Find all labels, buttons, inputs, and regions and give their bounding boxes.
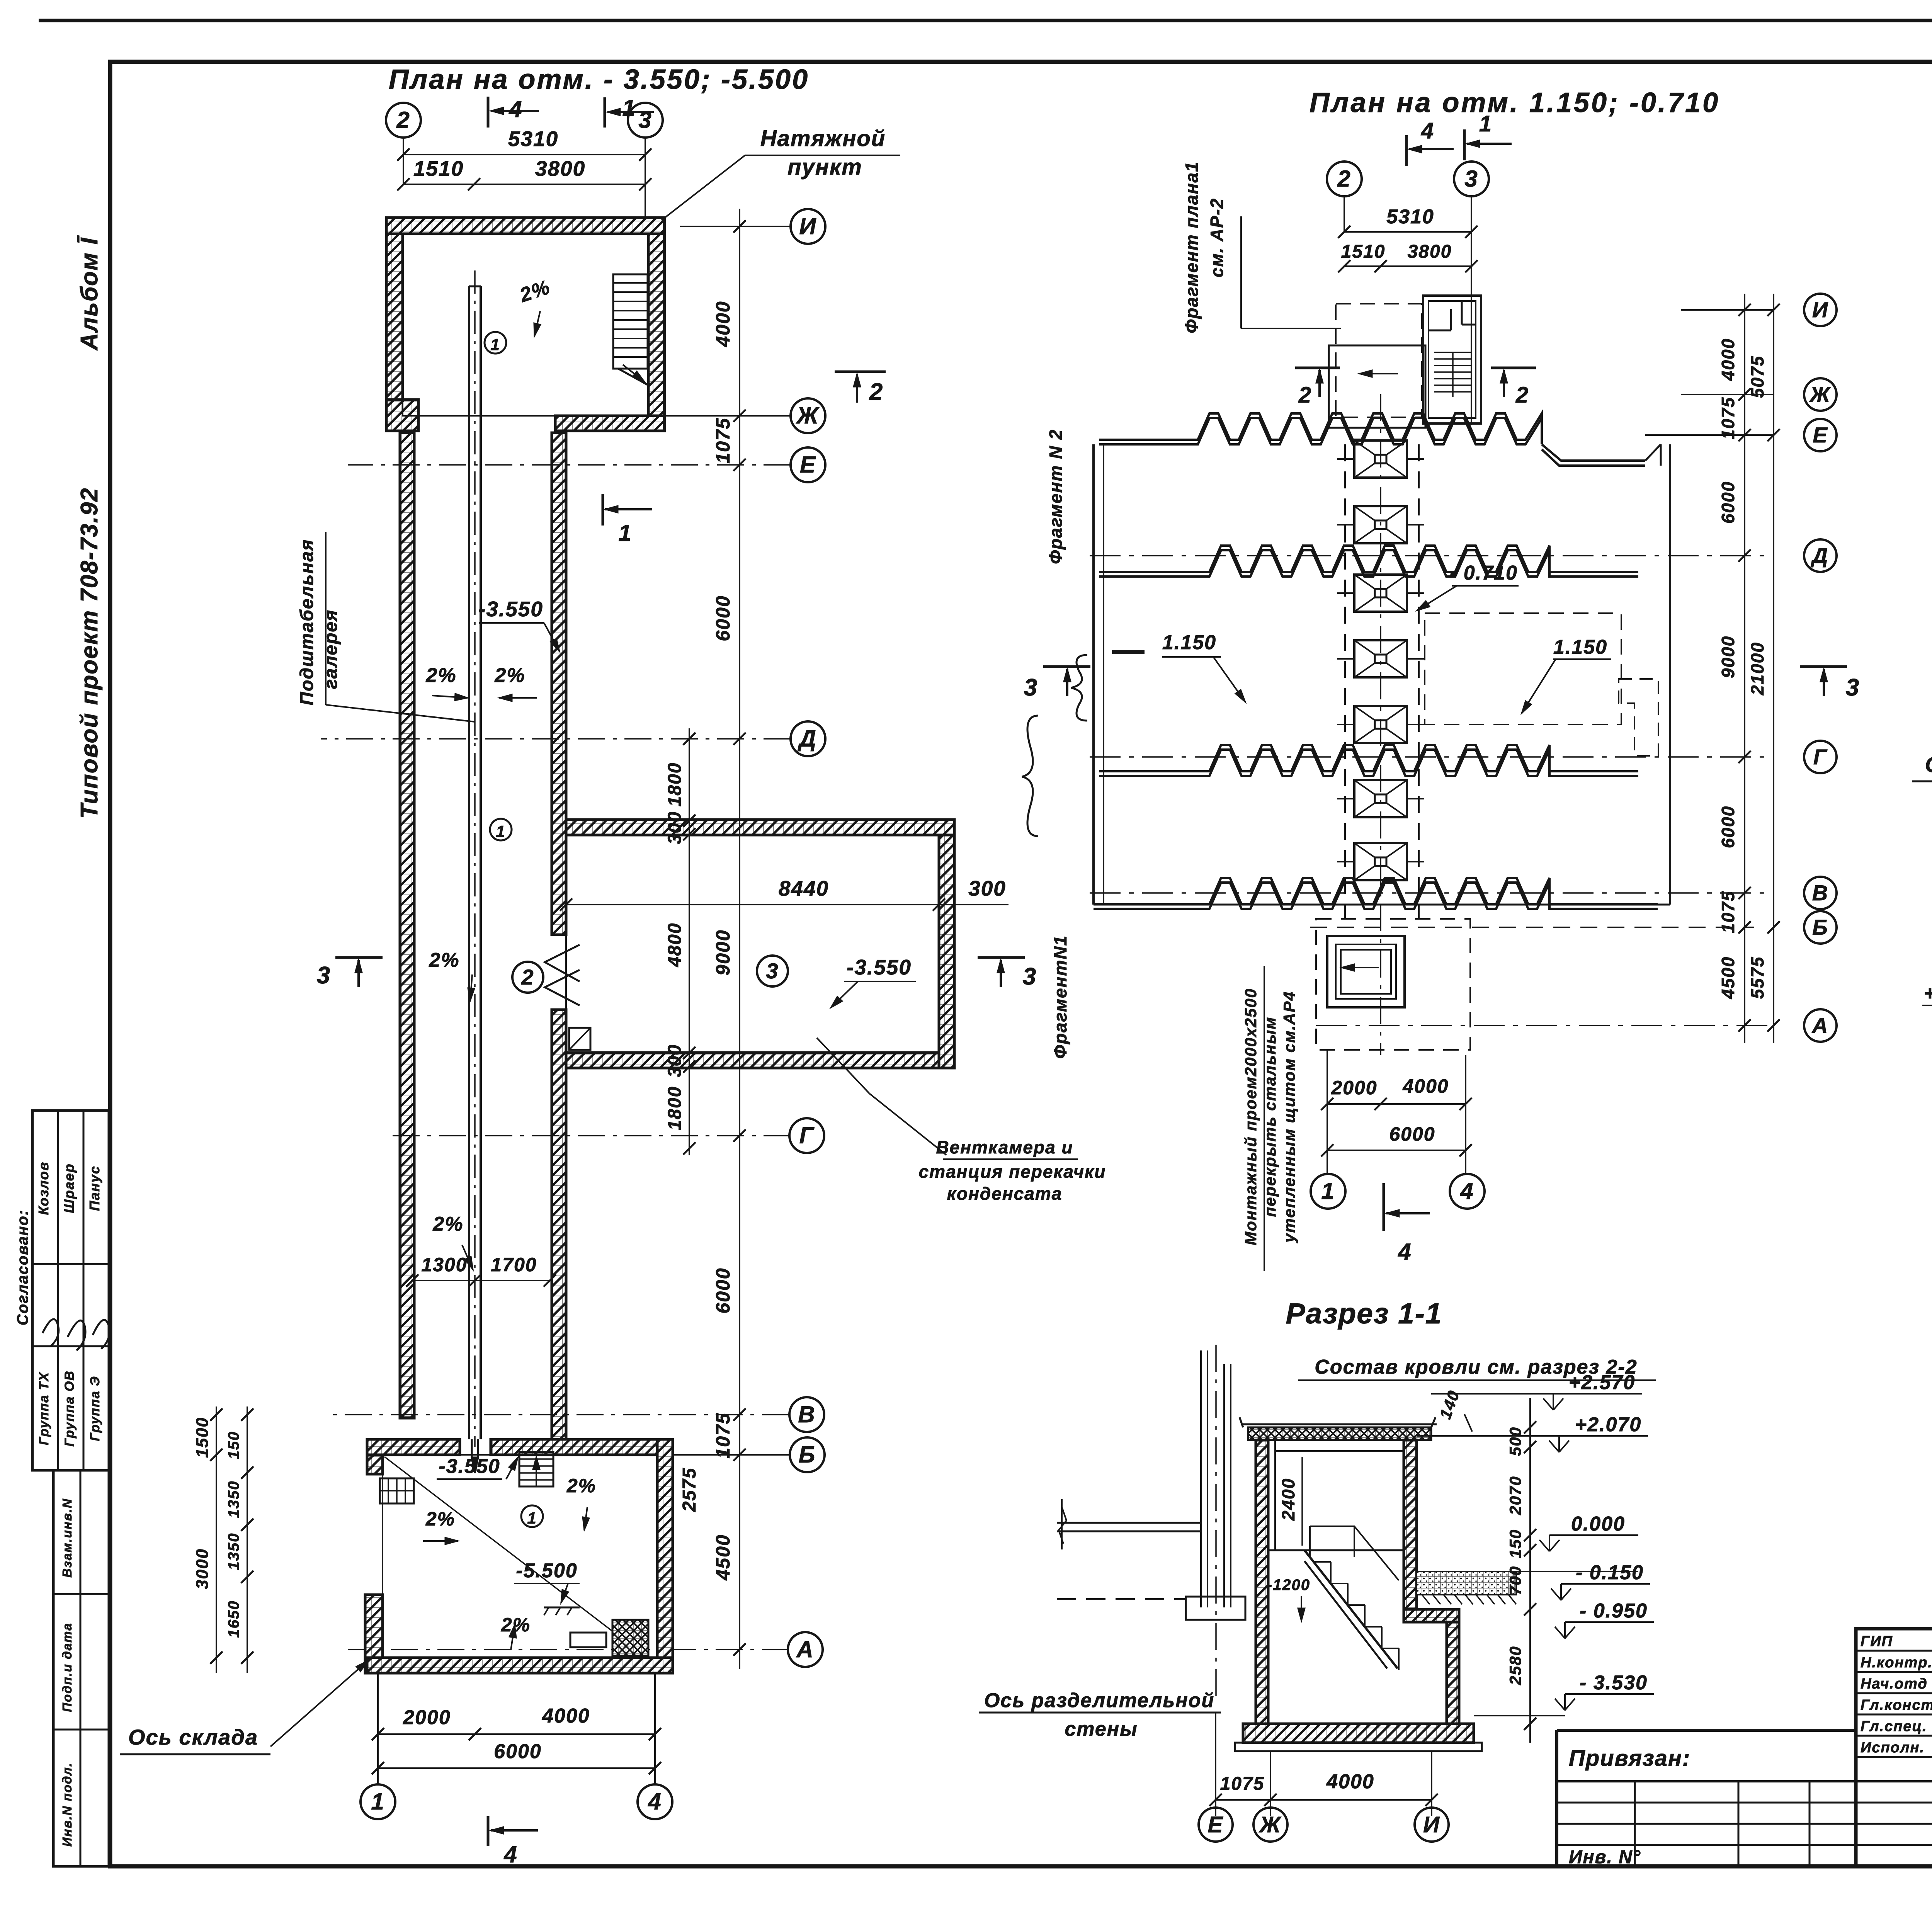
svg-text:4: 4 bbox=[1421, 118, 1434, 143]
svg-text:3: 3 bbox=[317, 962, 331, 989]
left plan section mark 1 top bbox=[604, 97, 606, 128]
svg-text:1650: 1650 bbox=[225, 1600, 242, 1638]
left plan axis circle I bbox=[791, 209, 825, 244]
left plan dim 5310 bbox=[403, 154, 645, 155]
svg-text:ГИП: ГИП bbox=[1861, 1633, 1893, 1650]
svg-text:4000: 4000 bbox=[1718, 338, 1738, 381]
left plan section mark 3 right bbox=[978, 956, 1025, 959]
middle plan bottom dim 6000 bbox=[1327, 1150, 1466, 1151]
svg-text:4: 4 bbox=[1398, 1239, 1412, 1265]
svg-text:3000: 3000 bbox=[193, 1548, 212, 1589]
svg-text:2: 2 bbox=[869, 379, 883, 405]
svg-text:1300: 1300 bbox=[421, 1254, 467, 1276]
svg-text:Фрагмент N 2: Фрагмент N 2 bbox=[1046, 429, 1066, 564]
left plan axis lines horizontal bbox=[680, 226, 791, 227]
svg-text:Е: Е bbox=[800, 452, 816, 478]
svg-text:Инв. N°: Инв. N° bbox=[1569, 1847, 1641, 1867]
left plan axis circle Zh bbox=[791, 398, 825, 433]
svg-text:1075: 1075 bbox=[1718, 891, 1738, 933]
left plan section mark 4 top bbox=[487, 97, 490, 128]
svg-text:4: 4 bbox=[648, 1789, 662, 1815]
svg-text:Подп.и дата: Подп.и дата bbox=[60, 1622, 74, 1712]
left plan vent room walls bbox=[566, 820, 954, 835]
svg-text:5310: 5310 bbox=[508, 127, 558, 151]
svg-text:4000: 4000 bbox=[542, 1705, 590, 1727]
svg-text:+2.070: +2.070 bbox=[1575, 1413, 1642, 1436]
svg-text:План на отм. 1.150; -0.710: План на отм. 1.150; -0.710 bbox=[1310, 87, 1720, 118]
svg-text:2%: 2% bbox=[432, 1213, 463, 1235]
section 1-1 floor line 0.000 bbox=[1268, 1549, 1404, 1551]
left plan axis circle E bbox=[791, 447, 825, 482]
left plan axis circle 4 bottom bbox=[638, 1784, 672, 1819]
middle plan axis circle 1 bottom bbox=[1311, 1174, 1345, 1209]
left plan leader natyazhnoy punkt bbox=[662, 155, 745, 220]
svg-text:3800: 3800 bbox=[1408, 241, 1452, 262]
svg-text:4000: 4000 bbox=[712, 301, 734, 347]
middle plan hopper column bbox=[1354, 440, 1407, 478]
svg-text:1: 1 bbox=[490, 335, 500, 354]
svg-text:см. АР-2: см. АР-2 bbox=[1207, 198, 1227, 277]
svg-text:4800: 4800 bbox=[665, 923, 685, 968]
svg-text:Нач.отд: Нач.отд bbox=[1861, 1676, 1928, 1692]
svg-text:Ж: Ж bbox=[796, 403, 820, 429]
svg-text:1510: 1510 bbox=[413, 156, 464, 180]
svg-text:6000: 6000 bbox=[494, 1740, 542, 1763]
svg-text:2: 2 bbox=[1337, 166, 1351, 192]
left plan axis circle 1 bottom bbox=[361, 1784, 395, 1819]
middle plan axis circle B bbox=[1804, 911, 1837, 944]
svg-text:150: 150 bbox=[225, 1431, 242, 1459]
svg-text:пункт: пункт bbox=[787, 155, 862, 180]
svg-text:Привязан:: Привязан: bbox=[1569, 1746, 1690, 1771]
left plan axis 3 circle in room bbox=[757, 956, 788, 986]
svg-text:Гл.спец.: Гл.спец. bbox=[1861, 1718, 1927, 1735]
left plan tension room walls bbox=[386, 218, 665, 234]
svg-text:2%: 2% bbox=[429, 949, 459, 971]
section 1-1 roof slab bbox=[1248, 1427, 1431, 1440]
middle plan axis circle E bbox=[1804, 419, 1837, 451]
svg-text:6000: 6000 bbox=[712, 1267, 734, 1313]
svg-text:2: 2 bbox=[1298, 383, 1312, 408]
svg-text:Альбом Ī: Альбом Ī bbox=[76, 235, 103, 351]
svg-text:3: 3 bbox=[1846, 674, 1860, 701]
section 1-1 right step wall bbox=[1404, 1609, 1459, 1622]
section 1-1 bottom dims bbox=[1216, 1799, 1432, 1801]
svg-text:И: И bbox=[799, 213, 816, 239]
left plan axis 2 circle bbox=[386, 103, 421, 138]
middle plan top structure stairs bbox=[1434, 352, 1471, 353]
svg-text:0.000: 0.000 bbox=[1571, 1513, 1625, 1535]
middle plan section mark 2 left bbox=[1295, 367, 1340, 369]
svg-text:1.150: 1.150 bbox=[1553, 636, 1607, 658]
svg-text:1075: 1075 bbox=[712, 417, 734, 463]
svg-text:Ж: Ж bbox=[1809, 382, 1831, 406]
svg-text:5575: 5575 bbox=[1747, 956, 1767, 999]
left plan axis 3 circle bbox=[628, 103, 663, 138]
svg-text:9000: 9000 bbox=[712, 929, 734, 975]
svg-text:В: В bbox=[1812, 881, 1828, 905]
svg-text:700: 700 bbox=[1506, 1566, 1524, 1595]
middle plan brace a bbox=[1071, 655, 1087, 721]
svg-text:ФрагментN1: ФрагментN1 bbox=[1050, 935, 1070, 1059]
title block lower grid bbox=[1557, 1780, 1932, 1782]
svg-text:21000: 21000 bbox=[1747, 642, 1767, 696]
svg-text:Ось склада: Ось склада bbox=[1925, 752, 1932, 777]
left plan vent room drain square bbox=[569, 1028, 590, 1050]
svg-text:1: 1 bbox=[1321, 1178, 1335, 1204]
left plan lower room inner outline bbox=[383, 1455, 657, 1658]
left plan axis circle V bbox=[789, 1397, 824, 1432]
left plan lower room small stairs bbox=[519, 1452, 553, 1486]
middle plan dim 1510 3800 top bbox=[1344, 265, 1471, 267]
section 1-1 bottom slab bbox=[1243, 1724, 1474, 1743]
middle plan axis circle Zh bbox=[1804, 378, 1837, 411]
section 1-1 axis circle I bbox=[1415, 1808, 1449, 1842]
svg-text:1: 1 bbox=[371, 1789, 384, 1815]
middle plan section mark 1 top bbox=[1463, 129, 1466, 160]
svg-text:И: И bbox=[1812, 298, 1828, 322]
svg-text:Н.контр.: Н.контр. bbox=[1861, 1655, 1932, 1671]
left plan vent room dim 8440 300 bbox=[566, 904, 939, 905]
svg-text:1075: 1075 bbox=[1718, 397, 1738, 439]
middle plan level 1.150 left bbox=[1112, 650, 1145, 654]
svg-text:Группа Э: Группа Э bbox=[88, 1376, 102, 1441]
svg-text:4500: 4500 bbox=[712, 1534, 734, 1580]
middle plan big room top edge bbox=[1104, 444, 1198, 446]
svg-text:План на отм. - 3.550; -5.500: План на отм. - 3.550; -5.500 bbox=[389, 64, 809, 95]
middle plan bottom structure solid bbox=[1327, 936, 1405, 1007]
middle plan section mark 3 right bbox=[1800, 665, 1847, 668]
svg-text:И: И bbox=[1423, 1812, 1440, 1837]
svg-text:9000: 9000 bbox=[1718, 636, 1738, 678]
svg-text:4: 4 bbox=[503, 1842, 517, 1867]
middle plan axis circle D bbox=[1804, 539, 1837, 572]
section 1-1 axis circle Zh bbox=[1253, 1808, 1287, 1842]
left plan main dim column bbox=[739, 209, 740, 1669]
section 1-1 level 0.000 bbox=[1549, 1534, 1638, 1536]
section 1-1 stairs bbox=[1304, 1550, 1398, 1668]
svg-text:2000: 2000 bbox=[403, 1706, 451, 1729]
svg-text:500: 500 bbox=[1506, 1427, 1524, 1456]
svg-text:1700: 1700 bbox=[491, 1254, 537, 1276]
section 1-1 stair railing bbox=[1310, 1526, 1399, 1580]
svg-text:1510: 1510 bbox=[1341, 241, 1386, 262]
left plan callout 1 circle bbox=[485, 332, 506, 354]
middle plan zigzag wall row 4 axis V bbox=[1094, 878, 1658, 904]
left plan inner dim column 1800 300 4800 300 1800 bbox=[689, 728, 690, 1155]
section 1-1 left wall bbox=[1256, 1440, 1268, 1743]
section 1-1 divider wall foundation bbox=[1186, 1597, 1245, 1620]
svg-text:5075: 5075 bbox=[1747, 355, 1767, 398]
title block privyazan box bbox=[1557, 1729, 1856, 1732]
svg-text:Б: Б bbox=[1812, 915, 1828, 939]
svg-text:Фрагмент плана1: Фрагмент плана1 bbox=[1182, 161, 1202, 333]
svg-text:Венткамера и: Венткамера и bbox=[936, 1137, 1073, 1157]
svg-text:2400: 2400 bbox=[1278, 1478, 1298, 1521]
svg-text:4: 4 bbox=[1460, 1178, 1474, 1204]
left plan tension room inner outline bbox=[403, 234, 648, 416]
svg-text:- 0.950: - 0.950 bbox=[1580, 1600, 1648, 1622]
svg-text:1: 1 bbox=[618, 520, 632, 546]
svg-text:-3.550: -3.550 bbox=[478, 597, 543, 621]
svg-text:2580: 2580 bbox=[1506, 1646, 1524, 1685]
svg-text:Типовой проект 708-73.92: Типовой проект 708-73.92 bbox=[76, 487, 103, 818]
section 1-1 inner face lines bbox=[1274, 1440, 1276, 1550]
svg-text:Панус: Панус bbox=[87, 1165, 102, 1211]
svg-text:+2.570: +2.570 bbox=[1569, 1371, 1636, 1394]
svg-text:Б: Б bbox=[799, 1442, 816, 1468]
svg-text:2%: 2% bbox=[566, 1475, 596, 1497]
svg-text:1800: 1800 bbox=[665, 1086, 685, 1131]
middle plan axis 3 circle top bbox=[1454, 162, 1489, 196]
svg-text:Монтажный проем2000х2500: Монтажный проем2000х2500 bbox=[1242, 988, 1260, 1245]
middle plan section mark 2 right bbox=[1491, 367, 1536, 369]
left plan lower room left dims bbox=[216, 1406, 217, 1673]
svg-text:1.150: 1.150 bbox=[1162, 631, 1216, 654]
svg-text:В: В bbox=[798, 1401, 815, 1427]
left plan lower room diagonal slope line bbox=[384, 1457, 617, 1634]
section 1-1 level -0.150 bbox=[1561, 1583, 1650, 1585]
svg-text:Д: Д bbox=[797, 726, 816, 752]
svg-text:1500: 1500 bbox=[193, 1417, 212, 1458]
section 1-1 base plate bbox=[1235, 1743, 1482, 1751]
title block staff table bbox=[1854, 1629, 1857, 1866]
middle plan zigzag wall row 3 axis G bbox=[1099, 745, 1638, 771]
svg-text:Г: Г bbox=[1813, 745, 1828, 769]
svg-text:Исполн.: Исполн. bbox=[1861, 1740, 1925, 1756]
svg-text:-5.500: -5.500 bbox=[516, 1560, 577, 1582]
svg-text:1350: 1350 bbox=[225, 1533, 242, 1570]
left plan long wall right upper bbox=[552, 433, 566, 935]
svg-text:2: 2 bbox=[396, 107, 410, 133]
left plan axis circle G bbox=[789, 1118, 824, 1153]
title block outer bbox=[1856, 1629, 1932, 1866]
svg-text:3800: 3800 bbox=[535, 156, 585, 180]
svg-text:300: 300 bbox=[665, 1044, 685, 1077]
left plan bottom dims 2000 4000 bbox=[378, 1733, 655, 1735]
middle plan top structure stair room bbox=[1423, 296, 1481, 423]
middle plan top structure dashed part bbox=[1329, 345, 1425, 428]
svg-text:А: А bbox=[796, 1636, 814, 1662]
left plan section mark 3 left bbox=[335, 956, 383, 959]
svg-text:6000: 6000 bbox=[1389, 1123, 1435, 1145]
left plan dim 1510 3800 bbox=[403, 184, 645, 185]
middle plan dim 5310 top bbox=[1344, 231, 1471, 233]
svg-text:-3.550: -3.550 bbox=[847, 955, 912, 979]
svg-text:1350: 1350 bbox=[225, 1481, 242, 1518]
svg-text:Группа ТХ: Группа ТХ bbox=[37, 1372, 51, 1445]
section 1-1 right dim column bbox=[1529, 1398, 1531, 1743]
svg-text:Д: Д bbox=[1811, 543, 1828, 568]
svg-text:Ж: Ж bbox=[1259, 1812, 1282, 1837]
middle plan axis circle V bbox=[1804, 877, 1837, 909]
middle plan dashed pit rectangle bbox=[1425, 613, 1621, 724]
middle plan axis circle 4 bottom bbox=[1450, 1174, 1485, 1209]
section 1-1 level +2.570 bbox=[1553, 1393, 1642, 1395]
svg-text:Козлов: Козлов bbox=[36, 1162, 51, 1215]
section 1-1 right wall upper bbox=[1404, 1440, 1417, 1609]
svg-text:4500: 4500 bbox=[1718, 956, 1738, 999]
svg-text:Шраер: Шраер bbox=[61, 1163, 77, 1213]
left plan stairs top right bbox=[613, 274, 648, 369]
middle plan zigzag wall row 2 axis D bbox=[1099, 546, 1638, 572]
middle plan dashed L shape bbox=[1619, 679, 1658, 756]
left plan vent room inner outline bbox=[566, 835, 939, 1053]
section 1-1 axis circle E bbox=[1199, 1808, 1233, 1842]
svg-text:Натяжной: Натяжной bbox=[760, 126, 886, 151]
left plan conveyor gallery lines bbox=[468, 286, 470, 1439]
svg-text:1: 1 bbox=[622, 95, 636, 121]
svg-text:1075: 1075 bbox=[1220, 1774, 1265, 1794]
middle plan big room bottom edge bbox=[1094, 904, 1670, 906]
svg-text:2%: 2% bbox=[425, 664, 456, 687]
svg-text:Инв.N подл.: Инв.N подл. bbox=[60, 1762, 74, 1847]
svg-text:конденсата: конденсата bbox=[947, 1184, 1063, 1204]
svg-text:-3.550: -3.550 bbox=[439, 1455, 500, 1478]
svg-text:Гл.конст: Гл.конст bbox=[1861, 1697, 1932, 1713]
svg-text:стены: стены bbox=[1065, 1718, 1138, 1740]
sidebar approval table bbox=[32, 1111, 109, 1470]
svg-text:4: 4 bbox=[509, 96, 522, 122]
svg-text:5310: 5310 bbox=[1386, 206, 1434, 228]
section 1-1 level +2.070 bbox=[1559, 1435, 1648, 1437]
middle plan big room right wall bbox=[1669, 444, 1671, 905]
left plan lower room walls bbox=[367, 1439, 460, 1455]
section 1-1 level -0.950 bbox=[1565, 1621, 1654, 1623]
left plan section mark 4 bottom bbox=[487, 1816, 490, 1846]
middle plan section mark 3 left bbox=[1043, 665, 1090, 668]
middle plan section mark 4 bottom bbox=[1383, 1183, 1385, 1231]
svg-text:3: 3 bbox=[766, 959, 779, 983]
paper top edge line bbox=[39, 19, 1932, 22]
svg-text:Взам.инв.N: Взам.инв.N bbox=[60, 1498, 74, 1578]
left plan section mark 2 right bbox=[835, 371, 886, 373]
svg-text:Г: Г bbox=[799, 1122, 815, 1148]
svg-text:Группа ОВ: Группа ОВ bbox=[62, 1370, 77, 1447]
svg-text:4000: 4000 bbox=[1326, 1770, 1374, 1793]
middle plan dashed conveyor enclosure lines bbox=[1344, 444, 1346, 919]
svg-text:1075: 1075 bbox=[712, 1412, 734, 1458]
svg-text:300: 300 bbox=[665, 811, 685, 844]
svg-text:- 0.710: - 0.710 bbox=[1450, 562, 1518, 584]
svg-text:3: 3 bbox=[1023, 963, 1037, 990]
left plan callout 1 circle lower bbox=[521, 1505, 543, 1527]
svg-text:Согласовано:: Согласовано: bbox=[14, 1209, 31, 1325]
left plan long wall left bbox=[400, 433, 414, 1418]
section 1-1 left beams bbox=[1057, 1522, 1201, 1524]
section 1-1 ground fill right bbox=[1417, 1571, 1516, 1595]
svg-text:- 0.150: - 0.150 bbox=[1576, 1561, 1644, 1584]
svg-text:Ось склада: Ось склада bbox=[128, 1725, 258, 1749]
svg-text:4000: 4000 bbox=[1402, 1075, 1449, 1097]
svg-text:2: 2 bbox=[1515, 383, 1529, 408]
svg-text:6000: 6000 bbox=[1718, 806, 1738, 848]
svg-text:2%: 2% bbox=[425, 1508, 455, 1530]
svg-text:А: А bbox=[1811, 1013, 1828, 1037]
svg-text:2%: 2% bbox=[494, 664, 525, 687]
svg-text:станция перекачки: станция перекачки bbox=[919, 1162, 1106, 1182]
svg-text:2575: 2575 bbox=[679, 1468, 700, 1512]
middle plan dim column inner bbox=[1744, 294, 1745, 1043]
middle plan big room left wall bbox=[1092, 444, 1095, 905]
left plan leader ventkamera bbox=[817, 1038, 869, 1094]
left plan lower room stair grid bbox=[380, 1478, 414, 1503]
svg-text:2000: 2000 bbox=[1331, 1077, 1377, 1099]
sidebar approval signatures bbox=[43, 1319, 59, 1347]
left plan axis circle 1 mid bbox=[490, 819, 512, 840]
left plan axis circle D bbox=[791, 721, 825, 756]
svg-text:Разрез 1-1: Разрез 1-1 bbox=[1286, 1297, 1442, 1330]
svg-text:3: 3 bbox=[1464, 166, 1478, 192]
middle plan dim column outer bbox=[1773, 294, 1774, 1043]
svg-text:галерея: галерея bbox=[321, 609, 341, 689]
svg-text:150: 150 bbox=[1506, 1529, 1524, 1558]
middle plan section mark 4 top bbox=[1405, 135, 1408, 166]
svg-text:2: 2 bbox=[521, 965, 534, 989]
sidebar stamp table bbox=[53, 1470, 109, 1866]
middle plan bottom dims 2000 4000 bbox=[1327, 1103, 1466, 1105]
svg-text:Е: Е bbox=[1208, 1812, 1224, 1837]
svg-text:6000: 6000 bbox=[712, 595, 734, 641]
middle plan axis 2 circle top bbox=[1327, 162, 1362, 196]
svg-text:- 3.530: - 3.530 bbox=[1580, 1672, 1648, 1694]
svg-text:+2.570: +2.570 bbox=[1924, 982, 1932, 1005]
svg-text:утепленным щитом см.АР4: утепленным щитом см.АР4 bbox=[1280, 991, 1298, 1243]
left plan drain square lower bbox=[612, 1620, 648, 1656]
left plan axis circle A bbox=[788, 1632, 823, 1667]
left plan bottom dim 6000 bbox=[378, 1767, 655, 1769]
svg-text:1: 1 bbox=[1479, 111, 1492, 136]
svg-text:Е: Е bbox=[1813, 423, 1828, 447]
svg-text:8440: 8440 bbox=[779, 876, 829, 900]
section 1-1 level -3.530 bbox=[1565, 1693, 1654, 1695]
middle plan axis circle A bbox=[1804, 1009, 1837, 1042]
section 1-1 right wall lower bbox=[1447, 1622, 1459, 1743]
svg-text:3: 3 bbox=[1024, 674, 1038, 701]
left plan long wall right lower bbox=[552, 1010, 566, 1440]
left plan axis break symbol and circle 2 bbox=[545, 945, 580, 981]
svg-text:Ось разделительной: Ось разделительной bbox=[984, 1689, 1214, 1712]
svg-text:1800: 1800 bbox=[665, 762, 685, 807]
middle plan brace b bbox=[1022, 716, 1038, 836]
svg-text:-1200: -1200 bbox=[1267, 1577, 1310, 1594]
svg-text:Подштабельная: Подштабельная bbox=[297, 539, 317, 706]
svg-text:1: 1 bbox=[496, 822, 505, 840]
middle plan axis circle G bbox=[1804, 741, 1837, 773]
left plan axis circle B bbox=[790, 1437, 825, 1472]
middle plan zigzag wall row 1 bbox=[1099, 413, 1542, 440]
middle plan bottom structure dashed bbox=[1316, 919, 1470, 1050]
left plan dim 1300 1700 bbox=[412, 1280, 550, 1281]
svg-text:6000: 6000 bbox=[1718, 481, 1738, 524]
middle plan axis circle I bbox=[1804, 294, 1837, 326]
left plan section mark 1 mid bbox=[602, 494, 604, 526]
section 1-1 divider wall axis lines bbox=[1200, 1350, 1202, 1607]
svg-text:2070: 2070 bbox=[1506, 1476, 1524, 1515]
svg-text:1: 1 bbox=[527, 1509, 537, 1527]
svg-text:300: 300 bbox=[968, 876, 1006, 900]
middle plan axis lines D G V bbox=[1090, 555, 1774, 556]
